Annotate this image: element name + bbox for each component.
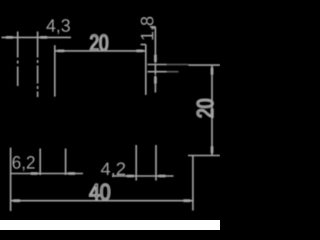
dimension line 6,2 [11, 173, 83, 175]
arrowhead 20 right top (pointing up) [211, 66, 214, 75]
arrowhead 40 left (pointing left) [11, 199, 20, 202]
arrowhead 4,2 right (pointing left) [157, 175, 166, 178]
arrowhead 4,3 right (pointing left) [38, 36, 47, 39]
vertical dimension line 20 right [211, 66, 213, 155]
dimension line 1,8 middle segment (through pin) [154, 64, 156, 75]
pin line P3 (solid) [54, 45, 56, 96]
white footer band [0, 220, 220, 230]
label 6,2 [13, 156, 35, 171]
pin bottom edge (bright) [148, 71, 167, 73]
pin centerline P2 (dash-dot) [37, 32, 39, 98]
label 4,3 [46, 19, 69, 34]
arrowhead 4,3 left (pointing right) [6, 36, 15, 39]
dimension line 4,3 left segment [2, 36, 72, 38]
pin top edge (bright) [148, 64, 167, 66]
arrowhead 6,2 left (pointing right) [31, 172, 40, 175]
arrowhead 20 top right (pointing right) [136, 50, 145, 53]
arrowhead 4,2 left (pointing right) [127, 175, 136, 178]
dimension line 1,8 upper segment [154, 27, 156, 56]
extension line 4,2 right [155, 145, 157, 181]
label 4,2 [101, 162, 125, 177]
body edge vertical line [145, 45, 147, 95]
body bottom-right edge line [188, 155, 220, 157]
arrowhead 40 right (pointing right) [183, 199, 192, 202]
arrowhead 1,8 top (pointing down) [154, 55, 157, 64]
pin bottom edge continuation (faint) [167, 71, 179, 73]
label 1,8 (rotated) [141, 17, 156, 40]
extension line to vertical 20 dim [189, 64, 221, 66]
tick at top of 1,8 dimension line [150, 26, 155, 28]
extension line 6,2 right [65, 149, 67, 176]
extension line 6,2 left [39, 149, 41, 176]
arrowhead 1,8 bottom (pointing up) [154, 75, 157, 84]
arrowhead 6,2 right (pointing left) [66, 172, 75, 175]
label 20 top [90, 35, 107, 51]
pin centerline P1 (dash-dot) [17, 32, 19, 87]
body top corner tick [141, 44, 146, 46]
dimension line 40 [11, 200, 193, 202]
dimension line 4,2 [112, 175, 174, 177]
extension line 4,2 left [135, 145, 137, 181]
dimension line 1,8 lower segment [154, 84, 156, 93]
left body extension vertical [10, 148, 12, 211]
label 20 right (rotated) [197, 99, 213, 117]
arrowhead 20 right bottom (pointing down) [211, 146, 214, 155]
pin top edge continuation (faint) [167, 64, 189, 66]
dimension line 20 top [55, 50, 145, 52]
arrowhead 20 top left (pointing left) [55, 50, 64, 53]
right corner extension vertical [192, 156, 194, 211]
label 40 [90, 184, 110, 200]
